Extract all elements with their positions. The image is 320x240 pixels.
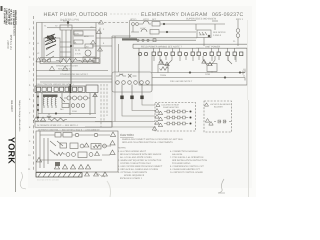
svg-text:C S R: C S R	[75, 53, 81, 56]
svg-text:9. CRANKCASE HEATER OPT: 9. CRANKCASE HEATER OPT	[170, 168, 201, 171]
svg-text:E1FB018 W COMPR 1: E1FB018 W COMPR 1	[120, 177, 143, 180]
svg-text:FOR WIRE SIZING: FOR WIRE SIZING	[172, 162, 191, 165]
svg-text:BLOWER: BLOWER	[214, 105, 223, 108]
svg-text:COMPRESSOR SEE NOTE 2: COMPRESSOR SEE NOTE 2	[60, 73, 89, 76]
svg-text:MODEL SEQUENCE: MODEL SEQUENCE	[124, 174, 145, 177]
svg-text:HPCO: HPCO	[130, 18, 137, 21]
svg-text:SEE NOTES: SEE NOTES	[213, 31, 226, 34]
svg-text:TRAN: TRAN	[160, 74, 166, 77]
svg-text:FIELD CONTROL WIRING SEE NOTE: FIELD CONTROL WIRING SEE NOTE 1	[36, 83, 75, 86]
svg-text:PUMP ADAPTER: PUMP ADAPTER	[163, 106, 179, 109]
svg-text:COPPER CONDUCTORS ONLY: COPPER CONDUCTORS ONLY	[120, 162, 152, 165]
svg-text:HEAT PUMP, OUTDOOR: HEAT PUMP, OUTDOOR	[44, 12, 108, 18]
svg-text:CONT: CONT	[199, 34, 206, 37]
svg-text:YORK: YORK	[7, 137, 17, 164]
svg-text:COM: COM	[72, 110, 77, 113]
svg-text:REV 1: REV 1	[236, 18, 244, 21]
svg-text:1. ALL FIELD WIRING MUST: 1. ALL FIELD WIRING MUST	[118, 150, 147, 153]
svg-text:3. USE COPPER WIRE FROM DISCON: 3. USE COPPER WIRE FROM DISCONNECT	[118, 165, 163, 168]
svg-text:WHEN A DISCONNECT SWITCH IS PR: WHEN A DISCONNECT SWITCH IS PROVIDED DO …	[122, 138, 183, 141]
svg-text:ALL LOCAL AND STATE CODES: ALL LOCAL AND STATE CODES	[120, 156, 152, 159]
svg-text:BE IN ACCORDANCE WITH NEC AND/: BE IN ACCORDANCE WITH NEC AND/OR	[120, 153, 162, 156]
svg-text:CAP: CAP	[119, 73, 124, 76]
svg-text:8. COMPRESSOR CONTROL CKT: 8. COMPRESSOR CONTROL CKT	[170, 165, 204, 168]
svg-text:NO 065 0923: NO 065 0923	[15, 10, 18, 25]
svg-text:CCH: CCH	[74, 33, 79, 36]
svg-text:DEFROST CONTROL — SEE NOTES 2: DEFROST CONTROL — SEE NOTES 2 AND 6 — LO…	[38, 129, 100, 132]
svg-text:2. WHEN UNIT EQUIPPED W/ CONTA: 2. WHEN UNIT EQUIPPED W/ CONTACTOR	[118, 159, 162, 162]
svg-text:5. OPTIONAL COMPONENTS: 5. OPTIONAL COMPONENTS	[118, 171, 148, 174]
svg-text:OFM: OFM	[205, 73, 210, 76]
svg-text:ID:3457: ID:3457	[7, 40, 10, 49]
svg-text:CAUTION: CAUTION	[120, 133, 134, 137]
svg-text:SEE INSTALLATION INSTRUCTION: SEE INSTALLATION INSTRUCTION	[172, 159, 207, 162]
svg-text:10. DEFROST CONTROL BOARD: 10. DEFROST CONTROL BOARD	[170, 171, 203, 174]
svg-text:CRANKCASE HEATER: CRANKCASE HEATER	[56, 65, 78, 68]
svg-text:7. FOR 208/230-1-60 OPERATION: 7. FOR 208/230-1-60 OPERATION	[170, 156, 204, 159]
svg-text:NOTES:: NOTES:	[118, 147, 126, 150]
svg-text:0123 45 678 90 123 456: 0123 45 678 90 123 456	[37, 179, 60, 182]
svg-text:FIELD POWER WIRING SEE NOTE 7: FIELD POWER WIRING SEE NOTE 7	[141, 46, 182, 49]
svg-text:LLSV: LLSV	[140, 27, 146, 30]
svg-text:BRN: BRN	[84, 35, 89, 38]
svg-text:ALTERNATE XFMR LOC — SEE NOTE: ALTERNATE XFMR LOC — SEE NOTE 4	[37, 124, 79, 127]
svg-text:DFT: DFT	[152, 18, 157, 21]
svg-text:REPLACE OR ALTER ELECTRICAL CO: REPLACE OR ALTER ELECTRICAL COMPONENTS	[122, 141, 173, 144]
svg-text:LPCO: LPCO	[143, 18, 149, 21]
svg-text:4. REPLACE ALL PANELS AND COVE: 4. REPLACE ALL PANELS AND COVERS	[118, 168, 159, 171]
svg-text:SEE NOTE 5: SEE NOTE 5	[58, 68, 71, 71]
svg-text:230-1-60 SEE NOTE 7: 230-1-60 SEE NOTE 7	[170, 80, 193, 83]
svg-text:21 23: 21 23	[75, 49, 81, 52]
svg-text:Subject to change without noti: Subject to change without notice	[18, 100, 21, 132]
svg-text:065-09236: 065-09236	[172, 153, 183, 156]
svg-text:2 AND 3: 2 AND 3	[213, 34, 222, 37]
svg-text:SUPERSEDES 065-09237B: SUPERSEDES 065-09237B	[186, 18, 216, 21]
svg-text:6. CONNECTION DIAGRAM: 6. CONNECTION DIAGRAM	[170, 150, 198, 153]
svg-text:BLK: BLK	[63, 20, 68, 23]
svg-text:065-09237: 065-09237	[10, 100, 13, 113]
svg-text:UNIT POWER: UNIT POWER	[205, 46, 221, 49]
